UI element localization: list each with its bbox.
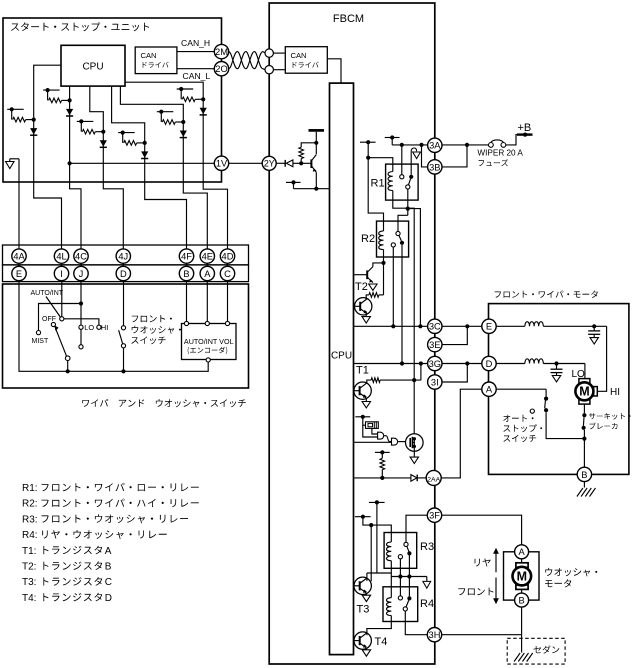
label rear bbox=[475, 559, 491, 567]
wire I to AUTO/INT contact bbox=[61, 282, 63, 317]
resistor (instance A) bbox=[13, 117, 34, 122]
wire 3I jog bbox=[442, 361, 469, 382]
contact MIST bbox=[36, 331, 40, 335]
wire R4 contact to 3H bbox=[405, 611, 427, 635]
contact AUTO/INT bbox=[60, 317, 64, 321]
svg-text:M: M bbox=[517, 569, 527, 583]
terminal 3H bbox=[427, 628, 441, 642]
MOSFET source ground arrow bbox=[410, 446, 418, 463]
auto-stop switch bbox=[544, 397, 548, 413]
wire 1V to 2Y bbox=[229, 162, 263, 164]
svg-text:C: C bbox=[105, 577, 112, 588]
svg-text:M: M bbox=[579, 385, 589, 399]
T2 emitter arrow bbox=[369, 284, 377, 290]
svg-text:CAN_L: CAN_L bbox=[183, 71, 211, 81]
stub node (2AA pull-up) bbox=[375, 450, 390, 454]
R1 pivot contact bbox=[400, 147, 404, 179]
zener diode (instance E) bbox=[180, 131, 187, 138]
svg-text:3E: 3E bbox=[429, 340, 440, 350]
R2 coil bbox=[379, 231, 384, 250]
arrow rear bbox=[493, 548, 499, 573]
stub node 2 (R3 feed) bbox=[355, 515, 371, 519]
wire stub2 to R3 coil bbox=[363, 517, 391, 542]
wire breaker to B bbox=[583, 439, 585, 468]
svg-text:D: D bbox=[120, 269, 127, 279]
label circuit breaker bbox=[589, 413, 631, 429]
capacitor D ground arrow bbox=[552, 376, 560, 382]
wire 2AA to motor A bbox=[441, 389, 482, 478]
label front wiper motor bbox=[495, 291, 598, 298]
wire J to LO bbox=[79, 282, 83, 326]
encoder bottom terminal bbox=[206, 358, 210, 362]
gate link bbox=[384, 436, 391, 442]
pin 4C bbox=[74, 249, 88, 263]
pin E bbox=[12, 266, 26, 280]
wire stub to gate bbox=[363, 425, 378, 437]
T1 ground arrow bbox=[362, 399, 370, 408]
legend R3: フロント・ウオッシャ・リレー bbox=[22, 514, 188, 525]
wire CPU to diode (2AA) bbox=[354, 477, 411, 479]
legend T1: トランジスタA bbox=[22, 546, 112, 557]
T3 ground arrow bbox=[362, 594, 370, 602]
twisted pair CAN_H bbox=[229, 52, 265, 69]
wire feed to R1 coil bbox=[368, 158, 393, 172]
zener diode (instance A) bbox=[30, 128, 37, 135]
wire B to encoder bbox=[186, 282, 188, 322]
label OFF bbox=[42, 316, 56, 323]
wire diode to base bbox=[293, 161, 312, 165]
wire auto-stop to breaker bbox=[546, 412, 584, 438]
wire through connector 4F/B bbox=[186, 249, 188, 282]
svg-text:R4:: R4: bbox=[22, 530, 38, 541]
R3 open contact bbox=[398, 555, 402, 559]
front wiper motor box bbox=[489, 304, 629, 475]
relay R1 bbox=[371, 164, 419, 200]
wire gate 2 to MOSFET gate bbox=[398, 441, 410, 443]
+B terminal bbox=[517, 122, 533, 137]
stub node B (+B sense) bbox=[385, 135, 400, 145]
svg-text:3H: 3H bbox=[429, 630, 441, 640]
wire ground net to connector E bbox=[18, 159, 20, 249]
wire CAN driver to CPU bbox=[327, 59, 341, 83]
CPU (FBCM) bbox=[330, 83, 354, 655]
relay R4 bbox=[383, 587, 434, 622]
terminal D (motor) bbox=[482, 356, 496, 370]
resistor (T2 driver) bbox=[366, 263, 383, 299]
wire R3 coil low side bbox=[390, 561, 392, 598]
sedan ground bbox=[514, 635, 533, 662]
R2 pivot contact bbox=[396, 231, 400, 235]
zener diode (instance B) bbox=[66, 109, 73, 116]
washer motor M bbox=[513, 559, 532, 593]
R3 lever bbox=[407, 546, 409, 551]
R4 closed contact bbox=[407, 596, 411, 600]
wire R2 closed contact to 3G bbox=[401, 245, 403, 364]
terminal 3A bbox=[428, 138, 442, 152]
wire CPU right pin to net F (to 4D) bbox=[125, 82, 228, 249]
svg-text:2AA: 2AA bbox=[427, 476, 440, 483]
terminal A (washer) bbox=[515, 545, 529, 559]
svg-text:R3:: R3: bbox=[22, 514, 38, 525]
circuit breaker bbox=[582, 413, 587, 441]
svg-text:FBCM: FBCM bbox=[333, 13, 364, 25]
svg-text:2Y: 2Y bbox=[264, 159, 275, 169]
svg-text:R1: R1 bbox=[371, 178, 385, 190]
label AUTO/INT bbox=[31, 290, 64, 297]
label front washer switch bbox=[131, 315, 181, 344]
R1 closed contact bbox=[409, 175, 413, 179]
wire 3E jog bbox=[442, 324, 469, 344]
wire through connector 4J/D bbox=[122, 249, 124, 282]
wire C to encoder bbox=[227, 282, 229, 322]
label HI bbox=[610, 387, 620, 398]
R1 coil bbox=[388, 172, 393, 191]
wire 3C to motor E bbox=[442, 325, 482, 327]
svg-text:+B: +B bbox=[518, 122, 532, 134]
label T2 bbox=[355, 281, 368, 293]
wire LO lower contact bbox=[80, 329, 82, 344]
selector arm bbox=[54, 325, 66, 356]
pin C bbox=[220, 266, 234, 280]
wire J branch to MIST bbox=[39, 304, 82, 331]
wire 3H to washer bbox=[442, 634, 522, 636]
zener diode (instance C) bbox=[100, 140, 107, 147]
contact LO bbox=[79, 325, 83, 329]
front washer switch contact (bottom) bbox=[121, 344, 125, 348]
contact HI bbox=[97, 325, 101, 329]
wire R3 pivot to 3F bbox=[406, 515, 427, 542]
wire 3C net bbox=[354, 324, 428, 328]
transistor T3 bbox=[354, 577, 372, 594]
wire 3F to washer A bbox=[442, 515, 522, 545]
pin I bbox=[54, 266, 68, 280]
transistor T2 output bbox=[354, 298, 372, 315]
washer common rail bbox=[391, 577, 427, 582]
svg-text:AUTO/INT: AUTO/INT bbox=[31, 290, 64, 297]
wire 3G to motor D bbox=[442, 363, 482, 365]
pin A bbox=[200, 266, 214, 280]
transistor T2 bbox=[354, 263, 384, 283]
label CAN_H bbox=[181, 38, 210, 48]
sedan dashed box bbox=[507, 638, 565, 664]
wiper motor M bbox=[575, 379, 597, 405]
resistor (instance B) bbox=[49, 98, 70, 103]
stub node 1 (R4 feed) bbox=[369, 500, 385, 573]
contact INT bbox=[79, 345, 83, 349]
pull-up stub node C bbox=[77, 119, 94, 131]
transistor T1 bbox=[354, 382, 372, 399]
wire T1 riser to 3G bbox=[420, 364, 422, 381]
start-stop unit box bbox=[3, 18, 222, 182]
wire R1 contact down bbox=[406, 189, 410, 215]
pin 4F bbox=[179, 249, 193, 263]
label auto-stop switch bbox=[503, 415, 542, 442]
pull-up stub node D bbox=[118, 131, 135, 143]
junction (instance D) bbox=[143, 141, 147, 145]
encoder terminal 3 bbox=[225, 321, 229, 325]
stub node (2Y cluster) bbox=[286, 180, 301, 188]
R4 lever bbox=[406, 600, 409, 607]
wire CPU pin to net D (to 4F) bbox=[112, 86, 187, 249]
label CAN_L bbox=[183, 71, 211, 81]
terminal 2M bbox=[214, 44, 228, 58]
arrow front bbox=[493, 578, 499, 605]
svg-text:T3:: T3: bbox=[22, 577, 36, 588]
T2 output ground arrow bbox=[362, 312, 370, 323]
svg-text:4D: 4D bbox=[222, 252, 234, 262]
svg-text:WIPER 20 A: WIPER 20 A bbox=[477, 148, 523, 157]
label T1 bbox=[356, 365, 369, 377]
svg-text:R1:: R1: bbox=[22, 483, 38, 494]
pin J bbox=[74, 266, 88, 280]
svg-text:A: A bbox=[518, 547, 525, 557]
terminal 3G bbox=[428, 356, 442, 370]
svg-text:A: A bbox=[486, 385, 493, 395]
stub node A (relay feed) bbox=[360, 140, 376, 158]
FBCM CAN_L inlet bbox=[265, 66, 273, 74]
label MIST bbox=[32, 338, 49, 345]
terminal B (motor) bbox=[577, 467, 591, 481]
wire junction to T3 bbox=[370, 525, 372, 581]
R4 pivot contact bbox=[398, 596, 402, 600]
wire CPU pin to net B (to 4C) bbox=[70, 86, 81, 249]
R1 lever bbox=[409, 179, 411, 185]
contact OFF bbox=[51, 322, 55, 326]
wire through connector 4D/C bbox=[227, 249, 229, 282]
legend T3: トランジスタC bbox=[22, 577, 112, 588]
washer motor housing bbox=[504, 552, 540, 600]
wire CAN_L to 2O bbox=[177, 68, 214, 70]
svg-text:4E: 4E bbox=[202, 252, 213, 262]
svg-text:3B: 3B bbox=[429, 162, 440, 172]
wire CPU to gate 2 bbox=[354, 441, 392, 443]
relay R2 bbox=[361, 221, 409, 257]
supply bar (2Y cluster) bbox=[309, 130, 325, 154]
svg-text:3C: 3C bbox=[429, 322, 441, 332]
svg-text:T2: T2 bbox=[355, 281, 368, 293]
CAN driver (FBCM) bbox=[285, 47, 327, 73]
pin 4E bbox=[200, 249, 214, 263]
svg-text:LO: LO bbox=[84, 323, 94, 332]
svg-text:T1: T1 bbox=[356, 365, 369, 377]
resistor (2AA) bbox=[380, 452, 385, 480]
wire CPU left pin to net A bbox=[34, 65, 62, 249]
svg-text:T4:: T4: bbox=[22, 593, 36, 604]
ground (start-stop unit) bbox=[6, 159, 19, 169]
wire 3A to fuse bbox=[442, 144, 489, 146]
resistor (instance D) bbox=[124, 141, 145, 146]
svg-text:B: B bbox=[105, 562, 112, 573]
wire 3G net bbox=[354, 361, 428, 365]
svg-text:1V: 1V bbox=[216, 159, 228, 169]
wire feed to R2 coil bbox=[368, 158, 383, 231]
resistor (T1 collector) bbox=[367, 378, 421, 383]
wire R1 contact to R2 pivot bbox=[398, 215, 408, 231]
wire 3B jog (outside) bbox=[442, 143, 469, 167]
R3 pivot contact bbox=[404, 542, 408, 546]
front washer switch contact (top) bbox=[121, 326, 125, 330]
wire A to auto-stop bbox=[496, 389, 546, 396]
diode (2AA) bbox=[411, 475, 426, 482]
legend T4: トランジスタD bbox=[22, 593, 112, 604]
wire 3A net bbox=[392, 143, 427, 147]
R3 coil bbox=[387, 542, 392, 561]
inductor (D) bbox=[525, 359, 543, 364]
svg-text:C: C bbox=[224, 269, 231, 279]
label encoder bbox=[188, 347, 228, 355]
inductor (E) bbox=[525, 322, 543, 327]
wire washer B to 3H net bbox=[521, 607, 523, 635]
wire emitter to CPU bbox=[294, 172, 330, 191]
svg-text:T4: T4 bbox=[375, 636, 388, 648]
svg-text:R4: R4 bbox=[420, 598, 434, 610]
wire D to LO bbox=[543, 361, 585, 365]
svg-text:4C: 4C bbox=[75, 252, 87, 262]
connector row box (unit side) bbox=[3, 245, 249, 265]
svg-text:4A: 4A bbox=[13, 252, 25, 262]
AUTO/INT VOL encoder box bbox=[182, 324, 237, 360]
T4 ground arrow bbox=[362, 649, 370, 657]
wire R3 open contact to R4 pivot bbox=[398, 559, 402, 596]
resistor (instance E) bbox=[162, 120, 183, 125]
terminal B (washer) bbox=[515, 593, 529, 607]
terminal 2O bbox=[214, 61, 228, 75]
svg-text:D: D bbox=[105, 593, 112, 604]
wire E winding bbox=[496, 325, 525, 327]
terminal 3B bbox=[428, 160, 442, 174]
svg-text:CPU: CPU bbox=[331, 351, 352, 362]
wire oscillator to gate bbox=[372, 428, 378, 434]
wire 3B jog (inside) bbox=[422, 145, 428, 167]
svg-text:MIST: MIST bbox=[32, 338, 49, 345]
wire CPU pin to net C (to 4J) bbox=[90, 86, 124, 249]
wire through connector 4A/E bbox=[18, 249, 20, 282]
label LO bbox=[572, 369, 586, 380]
terminal 1V bbox=[214, 156, 228, 170]
svg-text:I: I bbox=[60, 269, 63, 279]
pin D bbox=[116, 266, 130, 280]
svg-text:CAN: CAN bbox=[141, 51, 157, 60]
wire CAN_H to 2M bbox=[177, 51, 214, 53]
front washer switch lever bbox=[119, 330, 123, 343]
ground (front wiper motor) bbox=[577, 482, 596, 497]
terminal A (motor) bbox=[482, 382, 496, 396]
wire 1V net bbox=[68, 161, 215, 165]
label T4 bbox=[375, 636, 388, 648]
wire E to common rail bbox=[19, 282, 208, 372]
pin 4A bbox=[12, 249, 26, 263]
leader line AUTO/INT bbox=[46, 297, 60, 318]
junction (instance C) bbox=[101, 130, 105, 134]
capacitor (E) bbox=[588, 326, 600, 337]
logic gate 2 bbox=[392, 438, 398, 445]
terminal E (motor) bbox=[482, 319, 496, 333]
wire CPU pin to net E (to 4E) bbox=[120, 86, 207, 249]
pin 4D bbox=[220, 249, 234, 263]
legend R2: フロント・ワイパ・ハイ・リレー bbox=[22, 499, 199, 510]
svg-text:B: B bbox=[183, 269, 189, 279]
svg-text:3I: 3I bbox=[431, 377, 439, 387]
svg-text:3A: 3A bbox=[429, 141, 441, 151]
label T3 bbox=[357, 604, 370, 616]
label front (washer) bbox=[458, 588, 493, 596]
selector pivot bbox=[65, 356, 70, 361]
wire through connector 4L/I bbox=[61, 249, 63, 282]
R4 open contact bbox=[403, 607, 407, 611]
wire D winding bbox=[496, 363, 525, 365]
svg-text:3G: 3G bbox=[429, 359, 441, 369]
junction (instance F) bbox=[201, 97, 205, 101]
svg-text:AUTO/INT VOL: AUTO/INT VOL bbox=[184, 337, 234, 346]
wire pivot to rail bbox=[66, 361, 70, 374]
wire R3 closed contact to R4 bbox=[407, 556, 411, 597]
terminal 2AA bbox=[426, 470, 441, 485]
label HI (switch) bbox=[101, 323, 108, 332]
label wiper and washer switch bbox=[82, 399, 246, 407]
wire T3 collector link bbox=[367, 573, 391, 578]
wire 2Y to diode bbox=[276, 162, 285, 164]
R2 closed contact bbox=[400, 241, 404, 245]
R2 lever bbox=[399, 235, 402, 241]
diode (2Y input) bbox=[285, 160, 293, 167]
terminal 3C bbox=[428, 319, 442, 333]
transistor T4 bbox=[354, 632, 372, 649]
terminal 3E bbox=[428, 337, 442, 351]
oscillator block bbox=[366, 422, 379, 429]
logic gate 1 bbox=[378, 432, 384, 439]
resistor (2Y cluster) bbox=[299, 141, 318, 162]
encoder terminal 2 bbox=[205, 321, 209, 325]
wire A to encoder bbox=[206, 282, 208, 322]
junction (instance E) bbox=[181, 120, 185, 124]
svg-text:HI: HI bbox=[101, 323, 108, 332]
connector row box (switch side) bbox=[3, 265, 249, 282]
svg-text:2O: 2O bbox=[215, 64, 227, 74]
wire R1 contact to 3C net bbox=[408, 209, 421, 327]
junction (instance A) bbox=[32, 118, 36, 122]
wire stub to oscillator bbox=[363, 417, 366, 425]
svg-text:E: E bbox=[486, 322, 492, 332]
label LO (switch) bbox=[84, 323, 94, 332]
twisted pair CAN_L bbox=[229, 52, 265, 70]
svg-text:3F: 3F bbox=[429, 511, 440, 521]
R2 open contact bbox=[391, 243, 395, 247]
terminal 3F bbox=[427, 508, 441, 522]
svg-text:R2: R2 bbox=[361, 233, 375, 245]
MOSFET (wiper drive) bbox=[406, 434, 424, 452]
R3 closed contact bbox=[407, 551, 411, 555]
svg-text:A: A bbox=[105, 546, 112, 557]
pin B bbox=[179, 266, 193, 280]
svg-text:B: B bbox=[581, 470, 587, 480]
wire fuse to +B bbox=[506, 135, 525, 145]
R4 coil bbox=[387, 598, 392, 616]
svg-text:R3: R3 bbox=[420, 541, 434, 553]
wire E to HI bbox=[543, 324, 606, 328]
resistor (instance C) bbox=[82, 129, 103, 134]
legend R4: リヤ・ウオッシャ・リレー bbox=[22, 530, 167, 541]
svg-text:2M: 2M bbox=[215, 47, 228, 57]
encoder terminal 1 bbox=[184, 321, 188, 325]
fuse WIPER 20 A bbox=[489, 140, 506, 147]
label sedan bbox=[534, 645, 560, 653]
zener diode (instance D) bbox=[141, 151, 148, 158]
svg-text:R2:: R2: bbox=[22, 499, 38, 510]
pin 4L bbox=[54, 249, 68, 263]
capacitor (D) bbox=[551, 364, 563, 376]
svg-text:D: D bbox=[486, 359, 493, 369]
wiper and washer switch box bbox=[3, 284, 249, 388]
